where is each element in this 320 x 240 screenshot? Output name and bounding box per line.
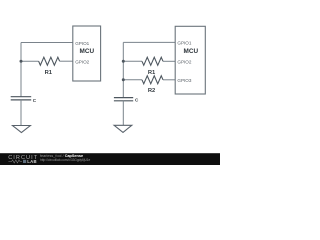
svg-text:MCU: MCU [184, 48, 199, 55]
svg-text:http://circuitlab.com/c/33Ggdy: http://circuitlab.com/c/33Ggdy6jU1e [40, 158, 91, 162]
MCU box (right) [175, 26, 205, 94]
wire (right circuit: top horizontal to GPIO1) [123, 41, 175, 43]
resistor R1 [39, 57, 60, 76]
wire (right circuit: R1 left lead) [123, 60, 142, 62]
resistor R1 (right) [142, 57, 163, 76]
svg-text:R2: R2 [148, 88, 155, 94]
wire (right circuit: R1 right lead to GPIO2) [163, 60, 175, 62]
ground (right) [114, 125, 132, 132]
wire (left circuit: vertical bus) [20, 43, 22, 97]
capacitor C (left) [11, 97, 37, 103]
node (junction on right bus at R2) [122, 78, 125, 81]
op-amp U1 / MCU box (left) [73, 26, 101, 81]
footer bar [0, 153, 220, 165]
node (junction on left bus) [20, 60, 23, 63]
svg-text:GPIO3: GPIO3 [177, 78, 191, 83]
wire (left capacitor to ground) [20, 100, 22, 126]
svg-text:GPIO1: GPIO1 [75, 41, 89, 46]
footer logo CIRCUIT LAB [8, 155, 38, 164]
svg-text:GPIO1: GPIO1 [177, 41, 191, 46]
wire (left circuit: top horizontal to GPIO1) [21, 42, 73, 44]
node (junction on right bus at R1) [122, 60, 125, 63]
wire (right capacitor to ground) [122, 101, 124, 126]
svg-text:GPIO2: GPIO2 [75, 60, 89, 65]
wire (right circuit: vertical bus) [122, 42, 124, 97]
svg-text:LAB: LAB [27, 159, 37, 164]
svg-text:MCU: MCU [80, 48, 95, 55]
capacitor C (right) [114, 98, 139, 103]
wire (left circuit: R1 left lead) [21, 60, 39, 62]
wire (right circuit: R2 right lead to GPIO3) [163, 79, 175, 81]
wire (left circuit: R1 right lead to GPIO2) [60, 60, 73, 62]
svg-text:R1: R1 [45, 70, 53, 76]
wire (right circuit: R2 left lead) [123, 79, 142, 81]
ground (left) [13, 126, 31, 133]
svg-text:GPIO2: GPIO2 [177, 60, 191, 65]
svg-text:R1: R1 [148, 70, 156, 76]
resistor R2 (right) [142, 76, 163, 94]
